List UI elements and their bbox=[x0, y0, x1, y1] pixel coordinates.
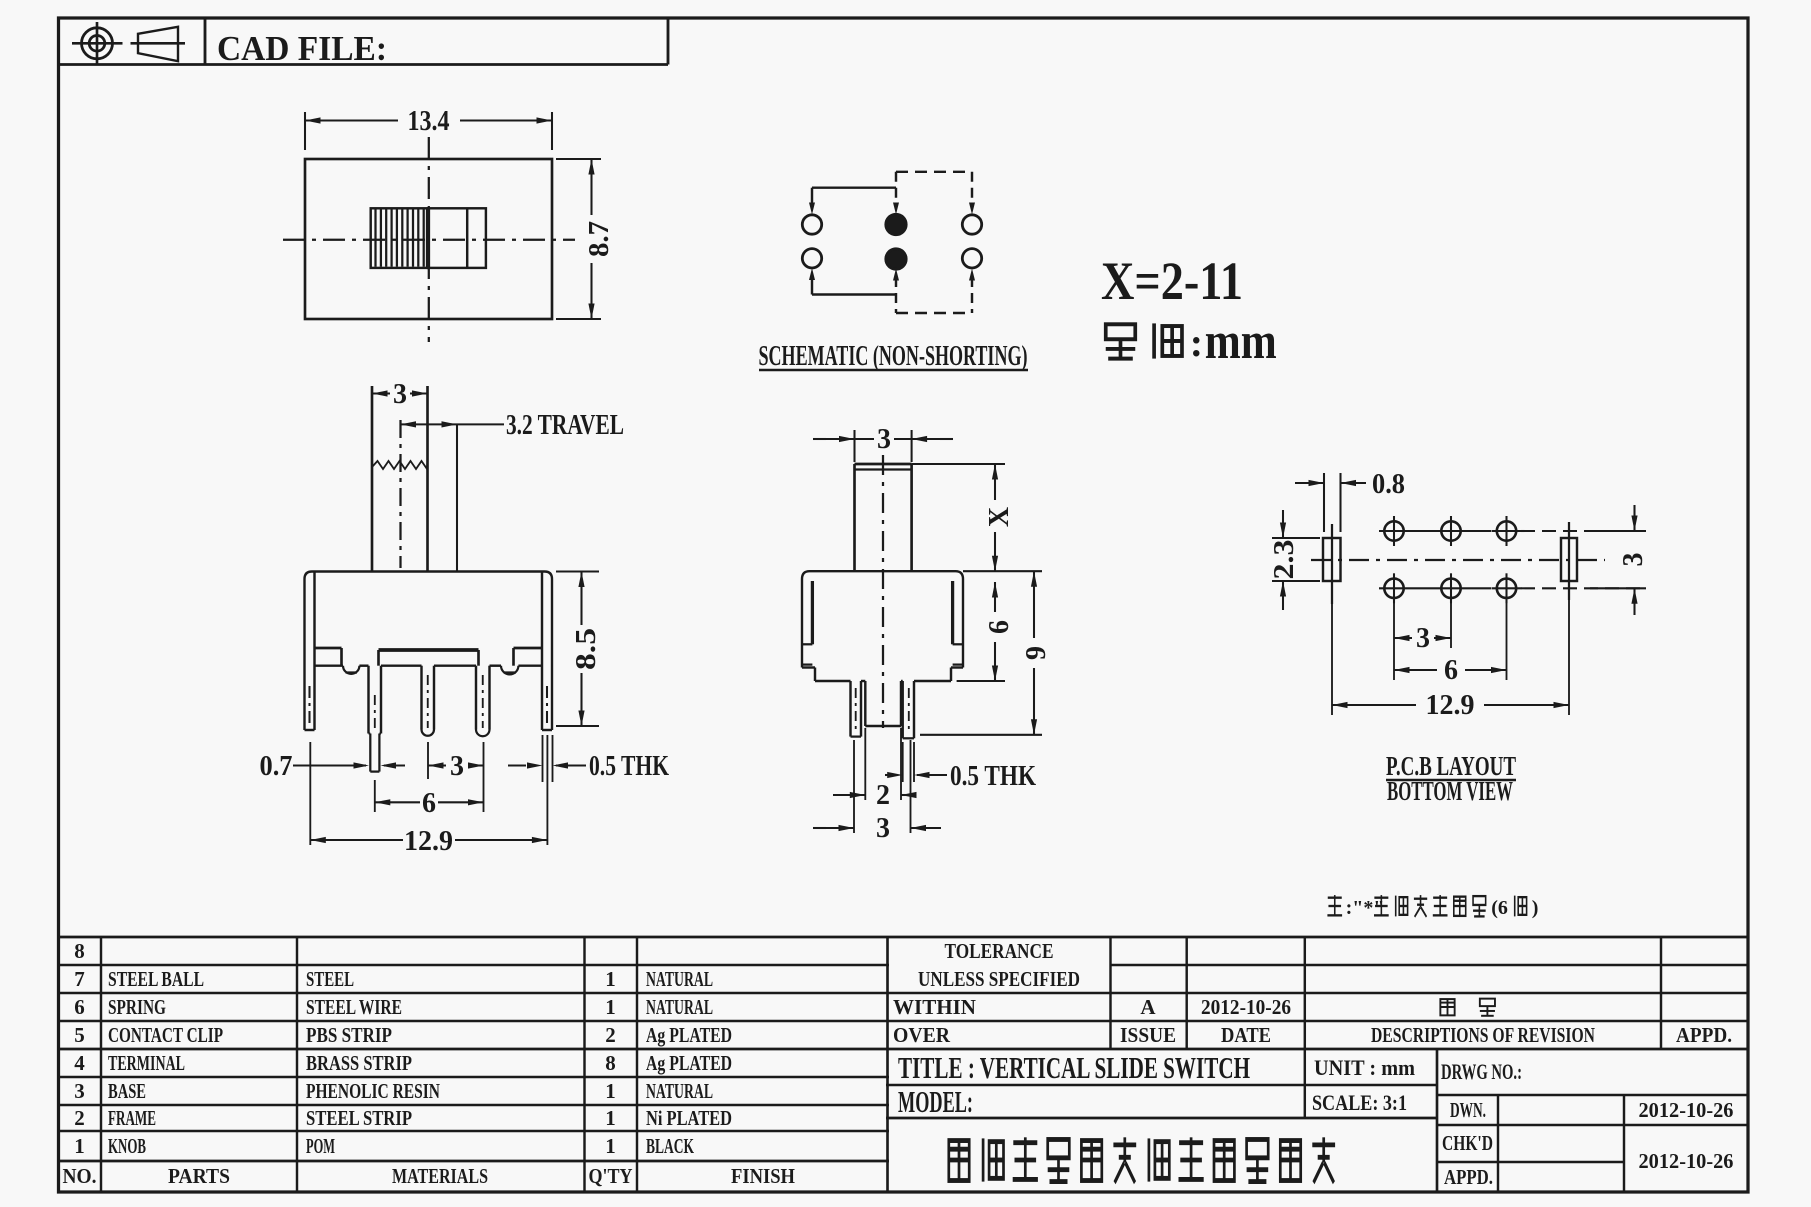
svg-text:BLACK: BLACK bbox=[646, 1134, 694, 1158]
svg-text:2: 2 bbox=[605, 1023, 616, 1047]
note unit: mm bbox=[1106, 313, 1277, 370]
svg-text:Ag PLATED: Ag PLATED bbox=[646, 1051, 732, 1075]
svg-text:8.7: 8.7 bbox=[584, 221, 615, 257]
front view extension line: pin3 center bbox=[483, 742, 485, 812]
svg-text:2: 2 bbox=[876, 780, 890, 811]
front view: terminal pin 2 with long tail bbox=[369, 666, 382, 772]
dimension 0.5 THK (front) bbox=[508, 751, 669, 782]
svg-text:ISSUE: ISSUE bbox=[1120, 1023, 1176, 1047]
tolerance block bbox=[893, 939, 1080, 1047]
title header box: CAD FILE bbox=[59, 18, 669, 65]
pcb dimension 6 bbox=[1394, 655, 1507, 686]
dimension 2 (side) bbox=[833, 780, 917, 811]
side view: shaft bbox=[855, 464, 912, 571]
svg-text:2012-10-26: 2012-10-26 bbox=[1201, 995, 1291, 1019]
parts row 8 bbox=[74, 939, 85, 963]
svg-text:3: 3 bbox=[1416, 623, 1430, 654]
svg-text:8: 8 bbox=[605, 1051, 616, 1075]
side view: base bottom edge bbox=[815, 680, 951, 682]
title row bbox=[898, 1050, 1522, 1085]
svg-text:(6: (6 bbox=[1491, 897, 1508, 919]
pcb hole r2c1 bbox=[1379, 573, 1409, 603]
pcb dimension 12.9 bbox=[1332, 690, 1569, 721]
front view extension line: left leg center bbox=[309, 742, 311, 845]
parts list and title block table bbox=[59, 937, 1749, 1192]
projection symbol: truncated cone side view bbox=[131, 27, 186, 61]
svg-text:6: 6 bbox=[984, 620, 1015, 634]
svg-text:UNIT : mm: UNIT : mm bbox=[1314, 1055, 1415, 1080]
svg-text:KNOB: KNOB bbox=[108, 1134, 146, 1158]
schematic: left contact wires bbox=[809, 188, 896, 295]
signature rows bbox=[1442, 1098, 1734, 1189]
side view: center base block bbox=[865, 681, 901, 726]
side view: dimension 3 (shaft) bbox=[813, 424, 953, 462]
dimension 3 (side, leg pitch) bbox=[813, 813, 941, 844]
svg-text:STEEL: STEEL bbox=[306, 967, 354, 991]
svg-text:3: 3 bbox=[1618, 553, 1649, 567]
schematic: terminal pins row 2 bbox=[802, 249, 981, 270]
dimension 0.5 THK (side) bbox=[885, 761, 1036, 792]
svg-text:NATURAL: NATURAL bbox=[646, 995, 713, 1019]
dimension 3 (pin pitch, front bottom) bbox=[428, 751, 484, 782]
schematic: dashed movable contact frame bbox=[893, 172, 975, 313]
note: key dimension remark bbox=[1327, 895, 1538, 919]
svg-text:1: 1 bbox=[605, 1079, 616, 1103]
front view: center terminal pin bbox=[422, 666, 435, 736]
svg-text:TERMINAL: TERMINAL bbox=[108, 1051, 185, 1075]
svg-text:3: 3 bbox=[450, 751, 464, 782]
svg-text:9: 9 bbox=[1021, 646, 1052, 660]
front view: base step lines bbox=[315, 648, 543, 666]
svg-text:NATURAL: NATURAL bbox=[646, 1079, 713, 1103]
svg-text:DATE: DATE bbox=[1221, 1023, 1271, 1047]
svg-text:BASE: BASE bbox=[108, 1079, 146, 1103]
svg-text:FINISH: FINISH bbox=[731, 1164, 795, 1188]
parts row 5 bbox=[74, 1023, 732, 1047]
svg-text:7: 7 bbox=[74, 967, 85, 991]
svg-text:BOTTOM VIEW: BOTTOM VIEW bbox=[1387, 776, 1513, 806]
side view: center line bbox=[882, 455, 884, 728]
svg-text:MODEL:: MODEL: bbox=[898, 1084, 973, 1119]
svg-text:SCHEMATIC (NON-SHORTING): SCHEMATIC (NON-SHORTING) bbox=[759, 341, 1028, 372]
pcb caption bbox=[1386, 751, 1516, 806]
dimension 6 (side body height) bbox=[984, 582, 1015, 681]
svg-text:1: 1 bbox=[605, 967, 616, 991]
parts row 2 bbox=[74, 1106, 732, 1130]
dimension 8.5 (front body height) bbox=[556, 572, 602, 727]
svg-text:0.5 THK: 0.5 THK bbox=[589, 751, 669, 782]
svg-text:3: 3 bbox=[74, 1079, 85, 1103]
svg-text:SCALE: 3:1: SCALE: 3:1 bbox=[1312, 1090, 1407, 1115]
svg-text:6: 6 bbox=[74, 995, 85, 1019]
svg-text:APPD.: APPD. bbox=[1676, 1023, 1732, 1047]
svg-text:3: 3 bbox=[877, 424, 891, 455]
svg-text:NO.: NO. bbox=[63, 1164, 97, 1188]
svg-text::: : bbox=[1190, 320, 1203, 365]
revision row bbox=[1120, 995, 1732, 1047]
parts row 4 bbox=[74, 1051, 732, 1075]
svg-text:APPD.: APPD. bbox=[1444, 1165, 1493, 1189]
svg-text:SPRING: SPRING bbox=[108, 995, 166, 1019]
pcb hole r1c1 bbox=[1379, 516, 1409, 546]
svg-text:8: 8 bbox=[74, 939, 85, 963]
svg-text:2012-10-26: 2012-10-26 bbox=[1639, 1149, 1734, 1173]
svg-text:0.5 THK: 0.5 THK bbox=[950, 761, 1036, 792]
dimension 0.7 (pin tail width) bbox=[260, 751, 406, 782]
svg-text:BRASS STRIP: BRASS STRIP bbox=[306, 1051, 412, 1075]
svg-text:12.9: 12.9 bbox=[404, 826, 453, 857]
svg-text:Ni PLATED: Ni PLATED bbox=[646, 1106, 732, 1130]
svg-text:5: 5 bbox=[74, 1023, 85, 1047]
svg-text:POM: POM bbox=[306, 1134, 335, 1158]
schematic caption bbox=[759, 341, 1029, 372]
parts row 7 bbox=[74, 967, 713, 991]
svg-text:0.8: 0.8 bbox=[1372, 469, 1405, 500]
pcb hole r1c3 bbox=[1492, 516, 1522, 546]
svg-text:STEEL STRIP: STEEL STRIP bbox=[306, 1106, 412, 1130]
svg-text:X=2-11: X=2-11 bbox=[1101, 251, 1243, 311]
pcb extension lines below holes bbox=[1332, 600, 1569, 715]
parts header row bbox=[63, 1164, 796, 1188]
company name bbox=[949, 1137, 1335, 1182]
front view extension line: right leg bbox=[543, 735, 553, 845]
parts row 3 bbox=[74, 1079, 713, 1103]
front view: body bottom edge with notches bbox=[315, 666, 543, 675]
pcb dimension 3 (row pitch, right) bbox=[1590, 505, 1649, 615]
svg-text:UNLESS SPECIFIED: UNLESS SPECIFIED bbox=[918, 967, 1080, 991]
dimension X (side) bbox=[984, 464, 1015, 571]
svg-text:STEEL WIRE: STEEL WIRE bbox=[306, 995, 402, 1019]
pcb dimension 3 (column pitch) bbox=[1394, 623, 1451, 654]
svg-text:0.7: 0.7 bbox=[260, 751, 293, 782]
pcb dimension 0.8 bbox=[1295, 469, 1405, 532]
front view: dimension 3 (knob width) bbox=[372, 379, 428, 410]
svg-text:PARTS: PARTS bbox=[168, 1164, 230, 1188]
svg-text:FRAME: FRAME bbox=[108, 1106, 156, 1130]
top view: switch body outline 13.4 x 8.7 bbox=[305, 159, 552, 319]
top view: vertical center line bbox=[428, 137, 430, 342]
schematic: terminal pins row 1 bbox=[802, 214, 981, 234]
pcb: right mounting slot bbox=[1561, 522, 1577, 600]
parts row 6 bbox=[74, 995, 713, 1019]
front view: terminal pin 3 bbox=[476, 666, 490, 737]
side view: front row leg bbox=[851, 681, 862, 737]
svg-text:2: 2 bbox=[74, 1106, 85, 1130]
pcb: left mounting slot bbox=[1323, 524, 1341, 604]
svg-text:A: A bbox=[1140, 995, 1156, 1019]
front view extension line: pin2 tail center bbox=[374, 780, 376, 812]
svg-text:): ) bbox=[1532, 897, 1539, 919]
pcb dimension 2.3 bbox=[1269, 510, 1320, 610]
svg-text:STEEL BALL: STEEL BALL bbox=[108, 967, 204, 991]
svg-text:WITHIN: WITHIN bbox=[893, 995, 976, 1019]
svg-text:PBS STRIP: PBS STRIP bbox=[306, 1023, 392, 1047]
svg-text:8.5: 8.5 bbox=[571, 628, 602, 670]
first-angle projection symbol: circle with crosshair bbox=[72, 22, 123, 65]
svg-text:DRWG NO.:: DRWG NO.: bbox=[1441, 1059, 1522, 1084]
top view: knob plain section bbox=[428, 208, 486, 268]
dimension 8.7 (top view height) bbox=[556, 159, 615, 319]
svg-text:NATURAL: NATURAL bbox=[646, 967, 713, 991]
side view: body outline bbox=[802, 571, 963, 681]
svg-text:MATERIALS: MATERIALS bbox=[392, 1164, 488, 1188]
side view: frame side tabs bbox=[802, 581, 963, 665]
pcb hole r1c2 bbox=[1436, 516, 1466, 546]
svg-text:DESCRIPTIONS OF REVISION: DESCRIPTIONS OF REVISION bbox=[1371, 1023, 1595, 1047]
svg-text:1: 1 bbox=[605, 995, 616, 1019]
svg-text:mm: mm bbox=[1205, 313, 1277, 370]
svg-text:Q'TY: Q'TY bbox=[589, 1164, 633, 1188]
front view: switch body outline bbox=[305, 572, 553, 731]
dimension 13.4 (top view width) bbox=[305, 106, 552, 150]
svg-text:1: 1 bbox=[605, 1106, 616, 1130]
svg-text:3: 3 bbox=[393, 379, 407, 410]
svg-text:6: 6 bbox=[1444, 655, 1458, 686]
top view: knob hatched section bbox=[371, 208, 428, 268]
svg-text:12.9: 12.9 bbox=[1426, 690, 1475, 721]
pcb hole r2c2 bbox=[1436, 573, 1466, 603]
front view: knob shaft bbox=[372, 386, 428, 572]
parts row 1 bbox=[74, 1134, 694, 1158]
svg-text:TOLERANCE: TOLERANCE bbox=[945, 939, 1054, 963]
svg-text:3: 3 bbox=[876, 813, 890, 844]
side view extension lines below bbox=[854, 728, 914, 833]
top view: horizontal center line bbox=[283, 239, 575, 241]
svg-text:CAD FILE:: CAD FILE: bbox=[217, 29, 387, 68]
svg-text:13.4: 13.4 bbox=[408, 106, 450, 137]
svg-text:1: 1 bbox=[605, 1134, 616, 1158]
dimension 3.2 TRAVEL bbox=[401, 410, 625, 572]
svg-text:Ag PLATED: Ag PLATED bbox=[646, 1023, 732, 1047]
svg-text:OVER: OVER bbox=[893, 1023, 951, 1047]
svg-text:6: 6 bbox=[422, 788, 436, 819]
model row bbox=[898, 1084, 1407, 1119]
svg-text:1: 1 bbox=[74, 1134, 85, 1158]
dimension 9 (side overall height) bbox=[1021, 571, 1052, 735]
svg-text:CHK'D: CHK'D bbox=[1442, 1131, 1493, 1155]
svg-text:X: X bbox=[984, 507, 1015, 527]
dimension 6 (outer pin pitch) bbox=[375, 788, 484, 819]
front view extension line: center pin bbox=[427, 742, 429, 779]
svg-text:DWN.: DWN. bbox=[1450, 1098, 1486, 1122]
pcb: center line bbox=[1311, 559, 1605, 561]
svg-text:2.3: 2.3 bbox=[1269, 540, 1300, 580]
side view reference lines right bbox=[912, 464, 1042, 735]
svg-text:PHENOLIC RESIN: PHENOLIC RESIN bbox=[306, 1079, 440, 1103]
svg-text:4: 4 bbox=[74, 1051, 85, 1075]
dimension 12.9 (front overall width) bbox=[310, 826, 547, 857]
svg-text:CONTACT CLIP: CONTACT CLIP bbox=[108, 1023, 223, 1047]
front view: knob travel center line bbox=[399, 420, 401, 568]
pcb: row connect lines bbox=[1409, 531, 1645, 588]
svg-text:2012-10-26: 2012-10-26 bbox=[1639, 1098, 1734, 1122]
svg-text:TITLE : VERTICAL SLIDE SWITCH: TITLE : VERTICAL SLIDE SWITCH bbox=[898, 1050, 1250, 1085]
pcb hole r2c3 bbox=[1492, 573, 1522, 603]
svg-text:3.2 TRAVEL: 3.2 TRAVEL bbox=[506, 410, 624, 441]
side view: back row leg bbox=[903, 681, 914, 738]
